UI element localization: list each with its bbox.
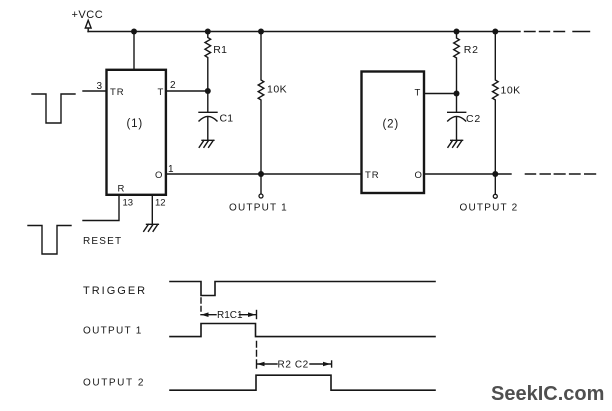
wire output 2 stub: [494, 174, 496, 194]
tick at R1C1 right: [256, 311, 258, 319]
dimension R2C2 right arrow: [310, 363, 331, 365]
resistor 10K no.2: [493, 32, 499, 175]
junction dot output 2: [492, 171, 498, 177]
junction dot VCC to U1: [131, 29, 137, 35]
svg-text:2: 2: [170, 80, 176, 91]
svg-text:OUTPUT 1: OUTPUT 1: [83, 326, 143, 337]
svg-text:R2 C2: R2 C2: [278, 360, 309, 371]
monostable U2 box: [362, 72, 425, 194]
svg-text:OUTPUT 2: OUTPUT 2: [460, 203, 519, 214]
dimension R2C2 left tick: [256, 360, 258, 368]
junction dot T2 node: [454, 91, 460, 97]
junction dot 10K no.1 top: [258, 29, 264, 35]
wire VCC rail solid: [88, 31, 520, 33]
svg-text:OUTPUT 2: OUTPUT 2: [83, 377, 145, 388]
output 2 terminal circle: [493, 194, 497, 198]
wire VCC rail dashed: [525, 31, 590, 33]
ground below pin 12: [144, 224, 159, 231]
wire output 2 dashed: [525, 173, 595, 175]
resistor 10K no.1: [258, 32, 264, 175]
svg-text:O: O: [415, 170, 422, 181]
svg-text:C2: C2: [466, 113, 481, 125]
output 1 terminal circle: [259, 194, 263, 198]
tick at R2C2 right: [331, 361, 333, 367]
svg-text:T: T: [158, 87, 164, 98]
wire U2 T pin to R2 C2 node: [424, 93, 457, 95]
wire T node to C1: [207, 91, 209, 112]
svg-text:10K: 10K: [267, 84, 287, 96]
dashed line trigger edge: [200, 298, 202, 311]
svg-text:R: R: [118, 184, 125, 195]
trigger input pulse symbol: [32, 94, 75, 123]
wire T2 node to C2: [456, 94, 458, 113]
svg-text:12: 12: [155, 198, 166, 209]
junction dot R2 top: [454, 29, 460, 35]
junction dot 10K no.2 top: [492, 29, 498, 35]
svg-text:13: 13: [123, 198, 134, 209]
svg-text:R1C1: R1C1: [217, 310, 243, 321]
dimension R1C1 left arrow: [201, 314, 216, 316]
resistor R1: [205, 32, 211, 92]
waveform OUTPUT 2: [170, 375, 435, 390]
ground below C2: [448, 140, 463, 147]
dimension R1C1 right arrow: [240, 314, 256, 316]
svg-text:(1): (1): [127, 118, 143, 130]
wire trigger input to TR pin: [83, 90, 106, 92]
svg-text:R2: R2: [464, 44, 479, 56]
reset pulse symbol: [28, 226, 71, 255]
svg-text:TR: TR: [110, 87, 125, 98]
wire pin 12 to ground: [151, 196, 153, 225]
VCC terminal arrow: [85, 20, 91, 31]
svg-text:R1: R1: [213, 44, 227, 56]
svg-text:C1: C1: [220, 113, 234, 125]
svg-text:(2): (2): [383, 119, 399, 131]
dashed line output1 edge: [256, 342, 258, 357]
wire U1 T pin to R1 C1 node: [167, 90, 208, 92]
monostable U1 box: [107, 70, 166, 195]
svg-text:10K: 10K: [501, 85, 521, 97]
waveform TRIGGER: [170, 282, 435, 296]
svg-text:T: T: [415, 88, 421, 99]
svg-text:+VCC: +VCC: [72, 9, 104, 21]
resistor R2: [454, 32, 460, 94]
capacitor C2: [448, 112, 466, 140]
svg-text:TRIGGER: TRIGGER: [83, 285, 147, 297]
svg-text:SeekIC.com: SeekIC.com: [491, 383, 604, 405]
ground below C1: [199, 140, 214, 147]
waveform OUTPUT 1: [170, 324, 435, 337]
wire pin 13 to reset: [83, 196, 119, 221]
wire output 1 stub: [260, 174, 262, 194]
wire U2 O output: [424, 173, 511, 175]
capacitor C1: [199, 112, 217, 140]
junction dot T node: [205, 88, 211, 94]
svg-text:TR: TR: [365, 170, 380, 181]
wire VCC to U1 top: [133, 32, 135, 70]
svg-text:RESET: RESET: [83, 236, 122, 247]
dimension R2C2 left arrow: [257, 363, 277, 365]
wire U1 O output to U2 TR: [167, 173, 362, 175]
svg-text:3: 3: [97, 81, 103, 92]
svg-text:O: O: [155, 170, 162, 181]
svg-text:OUTPUT 1: OUTPUT 1: [229, 203, 288, 214]
junction dot output 1: [258, 171, 264, 177]
junction dot R1 top: [205, 29, 211, 35]
